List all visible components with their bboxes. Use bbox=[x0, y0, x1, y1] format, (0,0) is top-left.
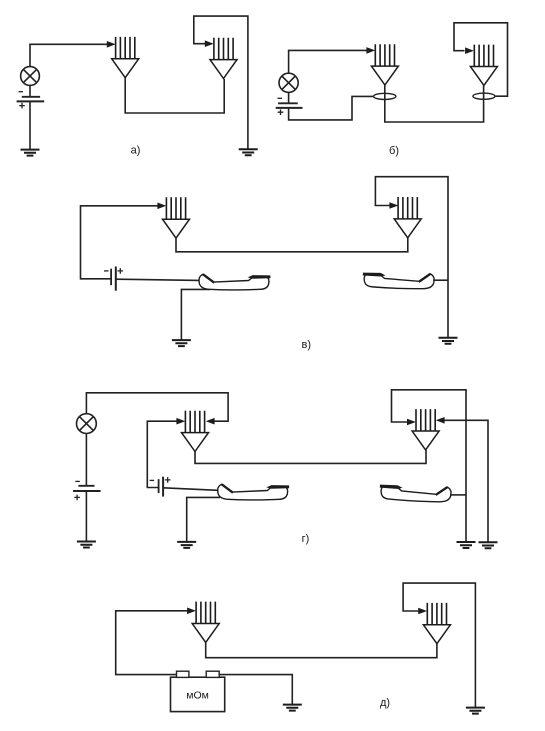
lamp HL1 bbox=[21, 67, 40, 86]
wire feedback loop bbox=[194, 16, 248, 149]
arrowhead A3 bbox=[366, 47, 375, 54]
ground bbox=[283, 705, 302, 711]
spoon S2 bbox=[362, 272, 434, 290]
wire spoon to ground bbox=[187, 497, 220, 542]
wire U8 left input loop bbox=[392, 390, 467, 542]
svg-text:мОм: мОм bbox=[186, 690, 209, 702]
wire box to ground bbox=[219, 675, 292, 705]
wire bbox=[288, 92, 290, 103]
unit U3 bbox=[371, 44, 398, 85]
unit U10 bbox=[423, 603, 450, 644]
box MOm bbox=[171, 671, 225, 711]
unit U7 bbox=[182, 411, 209, 452]
unit U1 bbox=[112, 37, 139, 78]
wire input loop to battery bbox=[81, 206, 159, 279]
wire lamp loop to right input bbox=[86, 393, 228, 421]
wire spoon to ground bbox=[181, 289, 210, 340]
arrowhead A11 bbox=[187, 608, 196, 615]
ground bbox=[239, 149, 258, 155]
spoon S3 bbox=[218, 484, 289, 500]
wire bbox=[85, 434, 87, 486]
unit U9 bbox=[192, 602, 219, 643]
unit U2 bbox=[210, 38, 237, 79]
unit U6 bbox=[394, 197, 421, 238]
battery GB5 bbox=[150, 477, 171, 497]
battery GB1 bbox=[17, 92, 45, 109]
ground bbox=[439, 338, 458, 344]
wire bbox=[30, 44, 108, 66]
svg-text:д): д) bbox=[380, 697, 390, 709]
lamp HL3 bbox=[77, 414, 97, 434]
wire left input to battery bbox=[147, 421, 178, 487]
ground bbox=[172, 340, 191, 346]
arrowhead A2 bbox=[205, 40, 214, 47]
wire bbox=[289, 50, 368, 73]
lamp HL2 bbox=[279, 73, 298, 92]
ground bbox=[466, 708, 485, 714]
wire U9 output to U10 output bbox=[206, 642, 437, 657]
svg-text:в): в) bbox=[302, 339, 312, 351]
lens E1 bbox=[374, 93, 396, 99]
arrowhead A7 bbox=[176, 418, 185, 425]
arrowhead A6 bbox=[389, 202, 398, 209]
wire U8 right input bbox=[444, 420, 488, 542]
wire spoon stub bbox=[433, 279, 448, 281]
arrowhead A1 bbox=[107, 41, 116, 48]
wire bbox=[29, 101, 31, 149]
ground bbox=[21, 150, 40, 156]
svg-text:г): г) bbox=[302, 533, 310, 545]
wire U10 input loop bbox=[403, 583, 475, 708]
wire U7 output to U8 output bbox=[195, 450, 426, 464]
ground bbox=[479, 542, 498, 548]
unit U8 bbox=[412, 409, 439, 450]
svg-text:а): а) bbox=[131, 145, 141, 157]
arrowhead A12 bbox=[418, 608, 427, 615]
wire battery to lens E1 bbox=[289, 96, 374, 120]
wire U1 output to U2 output bbox=[125, 78, 224, 113]
svg-text:б): б) bbox=[389, 145, 399, 157]
wire battery to spoon bbox=[116, 279, 200, 280]
lens E2 bbox=[473, 93, 495, 99]
unit U5 bbox=[163, 197, 190, 238]
wire battery to spoon bbox=[163, 488, 218, 491]
wire spoon stub bbox=[450, 494, 466, 496]
spoon S4 bbox=[379, 484, 451, 503]
ground bbox=[457, 542, 476, 548]
wire E2 feedback loop bbox=[454, 23, 508, 96]
wire U3 output through lenses to U4 bbox=[385, 85, 484, 122]
ground bbox=[77, 542, 96, 548]
wire bbox=[29, 85, 31, 96]
arrowhead A5 bbox=[157, 203, 166, 210]
arrowhead A9 bbox=[407, 419, 416, 426]
arrowhead A4 bbox=[465, 47, 474, 54]
arrowhead A8 bbox=[206, 418, 215, 425]
wire bbox=[85, 491, 87, 542]
wire U5 output to U6 output bbox=[176, 238, 408, 252]
battery GB3 bbox=[104, 267, 123, 291]
arrowhead A10 bbox=[436, 417, 445, 424]
wire input to box bbox=[116, 611, 188, 675]
battery GB2 bbox=[276, 98, 303, 115]
unit U4 bbox=[470, 45, 497, 86]
spoon S1 bbox=[199, 274, 270, 290]
battery GB4 bbox=[73, 481, 101, 500]
wire U6 input loop bbox=[375, 177, 448, 338]
ground bbox=[177, 542, 196, 548]
